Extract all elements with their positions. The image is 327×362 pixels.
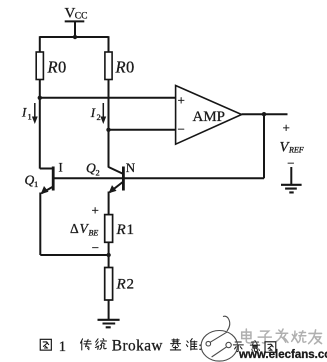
- svg-text:Δ: Δ: [70, 221, 79, 236]
- transistor Q1 base bar: [52, 167, 55, 191]
- svg-text:AMP: AMP: [193, 109, 226, 125]
- svg-text:0: 0: [58, 58, 66, 77]
- current I1 arrow: [32, 103, 117, 194]
- resistor R0 right: [105, 52, 112, 80]
- svg-text:1: 1: [59, 339, 66, 355]
- svg-text:−: −: [287, 156, 294, 171]
- feedback wire horizontal (base line): [53, 177, 264, 179]
- svg-text:0: 0: [126, 58, 134, 77]
- output wire: [242, 113, 288, 115]
- node R1/R2 junction: [106, 253, 110, 257]
- watermark gray text fa: [276, 329, 288, 343]
- svg-text:1: 1: [127, 222, 135, 238]
- Vcc stem wire: [74, 21, 76, 37]
- Q1 emitter column wire: [39, 193, 41, 256]
- left column wire: [39, 80, 41, 169]
- caption 基: [170, 339, 180, 350]
- svg-text:−: −: [178, 122, 185, 137]
- feedback wire vertical: [263, 114, 265, 178]
- node junction dots: [38, 35, 267, 257]
- svg-text:I: I: [90, 105, 96, 120]
- caption 图2: [265, 342, 276, 352]
- caption 准: [186, 339, 197, 350]
- svg-text:R: R: [116, 277, 126, 293]
- svg-text:1: 1: [28, 112, 32, 122]
- left R0 top wire: [39, 36, 41, 52]
- svg-text:R: R: [47, 58, 58, 77]
- resistor R1: [105, 215, 113, 243]
- minus input rail wire: [109, 129, 176, 131]
- resistor R2: [105, 268, 113, 301]
- logo eye right: [226, 342, 231, 347]
- svg-text:Brokaw: Brokaw: [112, 338, 163, 355]
- watermark gray text zi: [258, 331, 271, 343]
- watermark gray text shao: [292, 331, 306, 343]
- svg-text:I: I: [59, 161, 63, 175]
- svg-text:Q: Q: [86, 161, 96, 176]
- watermark gray text you: [309, 330, 322, 344]
- svg-text:CC: CC: [75, 12, 88, 22]
- svg-text:BE: BE: [89, 229, 99, 238]
- Q2 emitter wire diagonal: [110, 182, 124, 193]
- bottom link wire: [40, 254, 108, 256]
- ground (Vref) bars: [281, 185, 302, 193]
- svg-text:2: 2: [97, 112, 101, 122]
- current I2 arrow: [102, 103, 104, 119]
- svg-text:REF: REF: [288, 146, 304, 155]
- ground (bottom): [98, 320, 120, 328]
- top rail wire: [40, 36, 109, 38]
- resistor R0 left: [36, 52, 43, 80]
- caption 传: [80, 339, 91, 350]
- node Vcc junction: [73, 35, 77, 39]
- R1 to R2 wire: [108, 242, 110, 267]
- Q2 collector wire diagonal: [109, 167, 124, 174]
- svg-text:2: 2: [127, 277, 135, 293]
- Q1 emitter wire diagonal: [42, 187, 54, 194]
- right column wire: [108, 80, 110, 168]
- svg-text:−: −: [92, 240, 99, 255]
- node B (Q2 collector / -input): [106, 128, 110, 132]
- caption 意: [250, 341, 259, 352]
- svg-text:+: +: [178, 93, 185, 108]
- logo tail: [223, 316, 230, 331]
- svg-text:R: R: [115, 58, 126, 77]
- svg-text:2: 2: [96, 168, 100, 178]
- caption 统: [95, 339, 106, 350]
- Q2 emitter arrowhead: [109, 185, 117, 193]
- svg-text:www.elecfans.co: www.elecfans.co: [238, 349, 327, 361]
- Vcc bar: [65, 20, 85, 22]
- node Vref output junction: [262, 112, 266, 116]
- caption 示: [233, 342, 243, 352]
- ground (Vref) stem: [290, 167, 292, 185]
- node A (Q1 collector / +input): [38, 96, 42, 100]
- svg-text:1: 1: [34, 179, 38, 189]
- Q2 emitter column wire: [108, 192, 110, 215]
- logo eye left: [206, 341, 211, 346]
- R2 to ground wire: [108, 300, 110, 320]
- Q1 emitter arrowhead: [41, 186, 49, 194]
- svg-text:Q: Q: [25, 173, 35, 188]
- watermark gray text dian: [242, 329, 254, 343]
- op-amp U1 triangle: [176, 86, 242, 145]
- svg-text:I: I: [21, 105, 27, 120]
- svg-text:+: +: [283, 120, 290, 135]
- svg-text:+: +: [92, 202, 99, 217]
- right R0 top wire: [108, 36, 110, 52]
- caption 图: [40, 339, 51, 350]
- watermark logo circle: [201, 316, 237, 361]
- logo link lines: [210, 332, 227, 357]
- svg-text:R: R: [116, 222, 126, 238]
- transistor Q2 base bar: [122, 167, 125, 191]
- svg-text:N: N: [126, 160, 136, 175]
- plus input rail wire: [40, 97, 176, 99]
- Q1 collector wire: [40, 168, 52, 170]
